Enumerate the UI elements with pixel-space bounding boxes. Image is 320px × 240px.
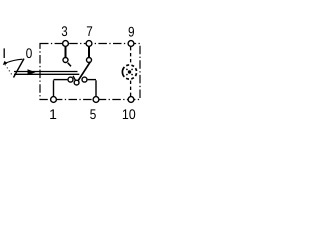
pin label 9 [129, 27, 134, 37]
bus wire right (to pin 5) [88, 79, 96, 81]
lever (dotted alternate position) [5, 65, 13, 77]
linkage arrow [28, 69, 36, 75]
pin label 7 [87, 26, 92, 36]
wire pin1 riser [53, 80, 55, 96]
pin label 5 [90, 109, 96, 119]
bus wire left (to pin 1) [54, 79, 68, 81]
wire from terminal 7 down [88, 47, 90, 57]
bus contact circle right [82, 77, 87, 82]
lever arc [5, 59, 23, 63]
pivot contact circle [74, 80, 79, 85]
terminal 5 [93, 97, 99, 103]
contact stub A [68, 63, 71, 67]
terminal 9 [128, 41, 134, 47]
lever arc arrowhead [3, 61, 7, 65]
pin label 10 [123, 109, 135, 119]
wire pin5 riser [95, 80, 97, 96]
movable arm [78, 62, 91, 82]
bus contact circle left [68, 77, 73, 82]
terminal 1 [51, 97, 57, 103]
linkage lower line [14, 73, 79, 75]
enclosure dash-dot border [40, 44, 140, 100]
terminal 10 [128, 97, 134, 103]
lever (solid position) [14, 59, 25, 78]
lamp centre dot [128, 70, 131, 73]
fixed contact B (pin 7) [87, 58, 92, 63]
lamp cross dashes [126, 69, 132, 75]
terminal 3 [63, 41, 69, 47]
dashed wire terminal 9 to lamp [130, 47, 132, 65]
dashed wire lamp to terminal 10 [130, 81, 132, 97]
illumination lamp L [122, 65, 136, 79]
position label 0 [26, 48, 32, 58]
terminal 7 [86, 41, 92, 47]
pin label 3 [62, 26, 67, 36]
fixed contact A (pin 3) [63, 58, 68, 63]
arm pivot link [73, 76, 76, 81]
linkage upper line [14, 71, 78, 73]
pin label 1 [50, 109, 56, 119]
position label I [4, 48, 5, 58]
wire from terminal 3 down [65, 47, 67, 57]
